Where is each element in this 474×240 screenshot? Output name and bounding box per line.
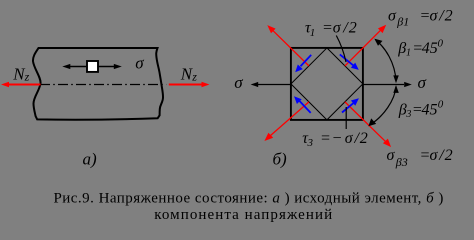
svg-text:σ: σ bbox=[418, 73, 427, 92]
svg-text:=: = bbox=[322, 20, 333, 37]
svg-text:2: 2 bbox=[445, 147, 453, 164]
svg-text:1: 1 bbox=[310, 27, 316, 39]
svg-text:компонента напряжений: компонента напряжений bbox=[154, 207, 333, 223]
svg-text:σ: σ bbox=[387, 147, 396, 164]
svg-text:σ: σ bbox=[388, 7, 397, 24]
svg-text:Рис.9. Напряженное состояние:: Рис.9. Напряженное состояние: а ) исходн… bbox=[54, 191, 444, 207]
svg-text:β3: β3 bbox=[395, 155, 408, 169]
svg-text:σ: σ bbox=[430, 7, 439, 24]
svg-text:σ: σ bbox=[135, 54, 144, 73]
svg-text:3: 3 bbox=[405, 109, 411, 120]
svg-text:σ: σ bbox=[333, 20, 342, 37]
svg-text:б): б) bbox=[273, 150, 288, 169]
svg-text:3: 3 bbox=[307, 137, 314, 149]
svg-text:2: 2 bbox=[445, 7, 453, 24]
svg-text:а): а) bbox=[83, 150, 98, 169]
svg-text:β: β bbox=[397, 40, 406, 57]
svg-text:σ: σ bbox=[345, 130, 354, 147]
svg-text:=: = bbox=[320, 130, 331, 147]
svg-text:σ: σ bbox=[234, 73, 243, 92]
svg-text:2: 2 bbox=[360, 130, 368, 147]
svg-text:2: 2 bbox=[349, 20, 357, 37]
svg-text:−: − bbox=[332, 130, 343, 147]
svg-text:β1: β1 bbox=[396, 15, 409, 29]
svg-text:z: z bbox=[24, 70, 30, 84]
svg-text:0: 0 bbox=[438, 99, 444, 111]
svg-text:45: 45 bbox=[422, 40, 438, 57]
svg-text:45: 45 bbox=[422, 101, 438, 118]
svg-text:1: 1 bbox=[406, 48, 411, 59]
svg-text:σ: σ bbox=[430, 147, 439, 164]
svg-text:z: z bbox=[191, 69, 197, 83]
svg-text:0: 0 bbox=[438, 37, 444, 49]
